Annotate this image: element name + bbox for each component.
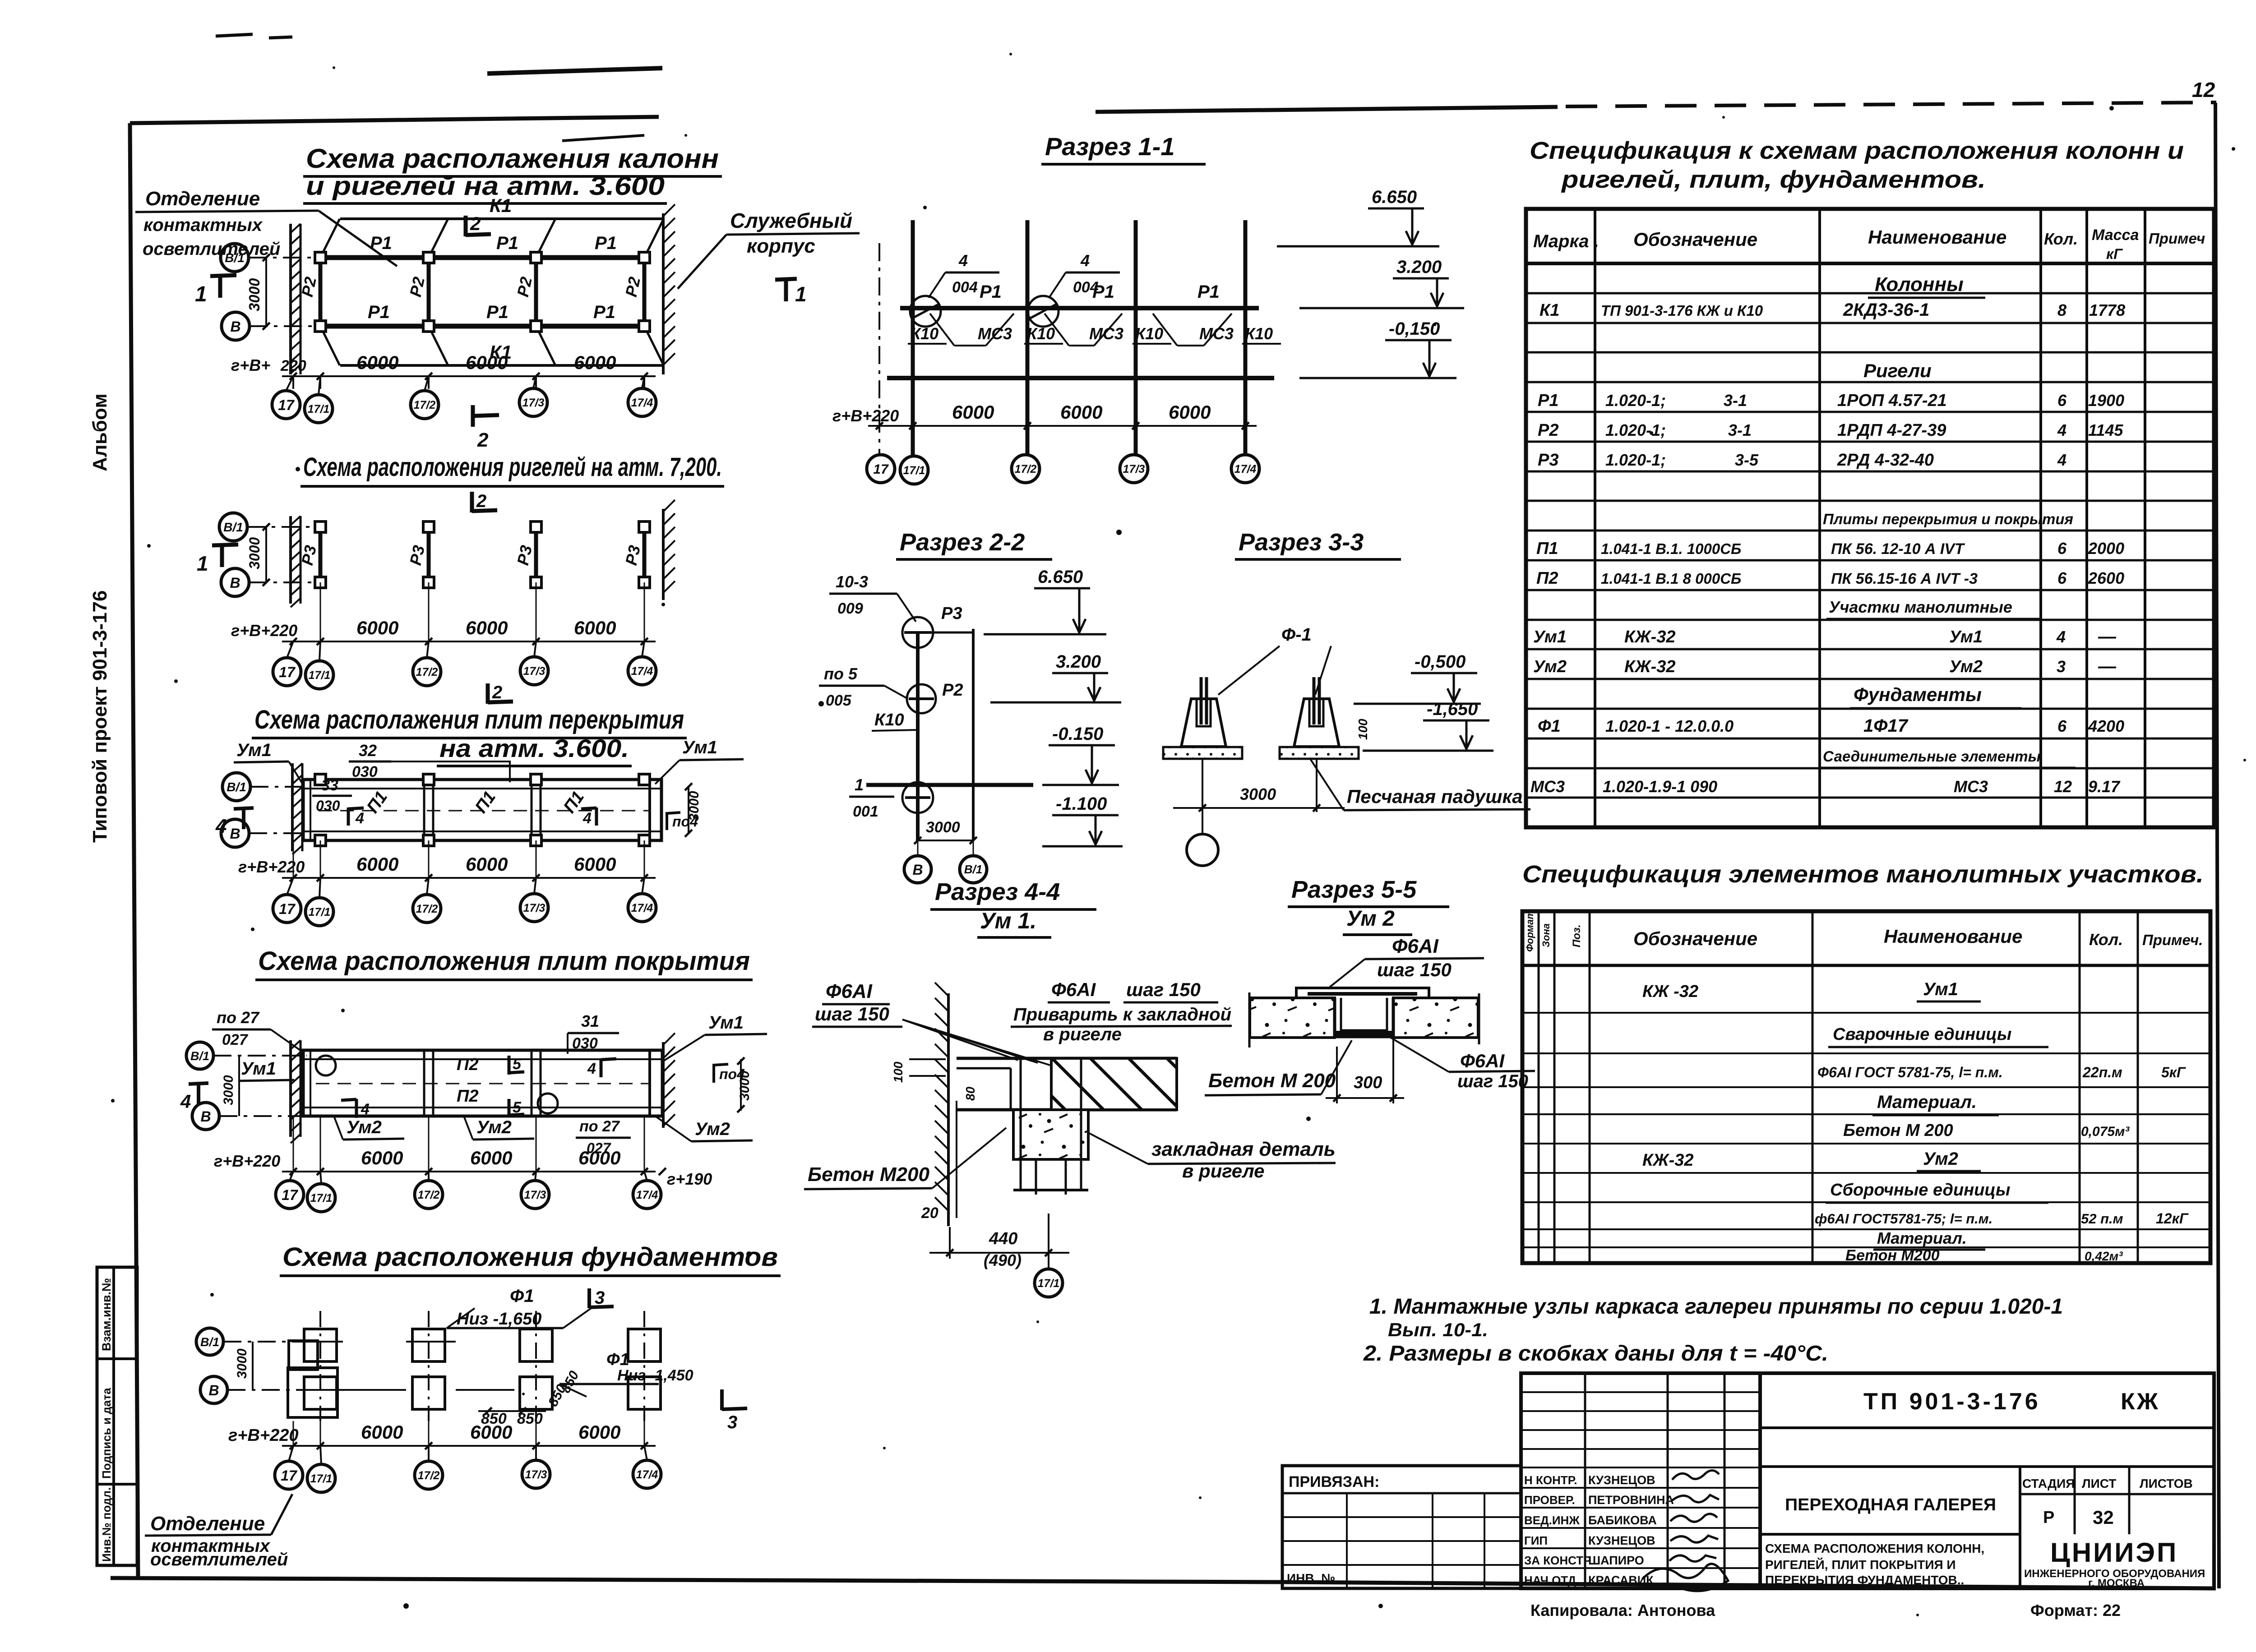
section marks 5 scheme4 xyxy=(508,1056,511,1075)
svg-text:П1: П1 xyxy=(1536,539,1558,558)
svg-text:Формат: 22: Формат: 22 xyxy=(2030,1601,2121,1620)
svg-text:Наименование: Наименование xyxy=(1884,926,2022,947)
svg-text:Приварить к закладной: Приварить к закладной xyxy=(1013,1005,1231,1024)
svg-text:2: 2 xyxy=(492,683,502,702)
svg-text:В: В xyxy=(230,826,240,842)
svg-text:Ф1: Ф1 xyxy=(606,1350,629,1369)
ground line section 2-2 xyxy=(866,783,1033,787)
svg-text:СТАДИЯ: СТАДИЯ xyxy=(2022,1477,2075,1490)
svg-text:6.650: 6.650 xyxy=(1038,567,1083,587)
svg-text:3000: 3000 xyxy=(737,1071,752,1101)
svg-text:17/1: 17/1 xyxy=(309,906,331,918)
svg-text:Ф1: Ф1 xyxy=(510,1286,534,1306)
svg-text:Ум2: Ум2 xyxy=(1923,1149,1958,1169)
svg-text:300: 300 xyxy=(1354,1073,1382,1092)
svg-text:80: 80 xyxy=(963,1086,977,1101)
svg-text:17/3: 17/3 xyxy=(524,1189,546,1201)
svg-text:Примеч: Примеч xyxy=(2149,230,2205,247)
svg-text:ГИП: ГИП xyxy=(1524,1534,1548,1547)
svg-text:004: 004 xyxy=(1073,279,1099,296)
svg-text:6000: 6000 xyxy=(470,1147,512,1168)
svg-text:по 27: по 27 xyxy=(217,1008,260,1027)
svg-text:П2: П2 xyxy=(1536,569,1558,588)
axis bubble В scheme5 xyxy=(200,1376,227,1403)
svg-text:Разрез 5-5: Разрез 5-5 xyxy=(1291,876,1417,903)
svg-text:3000: 3000 xyxy=(246,278,263,311)
svg-text:ЛИСТ: ЛИСТ xyxy=(2082,1477,2116,1490)
svg-text:Марка .: Марка . xyxy=(1533,231,1599,251)
svg-text:9.17: 9.17 xyxy=(2088,777,2121,796)
column squares scheme1 xyxy=(315,252,326,263)
axis 17 dash line section 1-1 xyxy=(878,243,880,456)
svg-text:ШАПИРО: ШАПИРО xyxy=(1588,1554,1644,1567)
svg-text:г+В+: г+В+ xyxy=(231,356,270,374)
svg-text:Разрез 2-2: Разрез 2-2 xyxy=(900,529,1025,556)
svg-text:3000: 3000 xyxy=(246,537,263,569)
svg-text:г+В+220: г+В+220 xyxy=(231,621,297,640)
svg-text:20: 20 xyxy=(921,1204,938,1222)
dimension line scheme2 xyxy=(282,641,656,642)
section marks 4 inside scheme4 xyxy=(600,1058,603,1077)
weld circle P3 section 2-2 xyxy=(902,617,933,648)
title block signatures xyxy=(1642,1470,1728,1591)
svg-text:2000: 2000 xyxy=(2088,539,2124,558)
svg-text:1.020-1;: 1.020-1; xyxy=(1605,421,1666,439)
axis bubbles section 2-2 xyxy=(904,856,931,883)
svg-text:В/1: В/1 xyxy=(225,251,245,265)
svg-text:17/4: 17/4 xyxy=(1234,463,1257,475)
svg-text:4: 4 xyxy=(1080,251,1090,270)
svg-text:Участки манолитные: Участки манолитные xyxy=(1829,598,2012,616)
svg-text:1900: 1900 xyxy=(2088,391,2124,410)
svg-text:В/1: В/1 xyxy=(964,863,982,876)
svg-text:К10: К10 xyxy=(1135,324,1163,343)
axis bubbles bottom scheme5 xyxy=(275,1461,303,1489)
cover plate section 5-5 xyxy=(1296,988,1429,998)
slab band section 5-5 xyxy=(1250,998,1335,1038)
svg-text:6000: 6000 xyxy=(356,352,398,373)
svg-text:Ум1: Ум1 xyxy=(241,1059,276,1079)
svg-text:17: 17 xyxy=(279,664,296,680)
svg-text:1.020-1 - 12.0.0.0: 1.020-1 - 12.0.0.0 xyxy=(1605,717,1734,735)
svg-text:МС3: МС3 xyxy=(1530,777,1565,796)
svg-text:6.650: 6.650 xyxy=(1372,187,1417,207)
svg-text:17: 17 xyxy=(278,397,295,413)
svg-text:6000: 6000 xyxy=(952,401,994,423)
axis bubble В/1 scheme1 xyxy=(221,244,249,272)
svg-text:Материал.: Материал. xyxy=(1877,1229,1967,1247)
svg-text:ЛИСТОВ: ЛИСТОВ xyxy=(2140,1477,2193,1490)
svg-text:Разрез 3-3: Разрез 3-3 xyxy=(1239,529,1364,556)
svg-text:Ум 1.: Ум 1. xyxy=(980,908,1036,933)
dim 3000 section 2-2 xyxy=(918,840,973,841)
beam row В/1 scheme1 (Р1) xyxy=(320,255,644,260)
svg-text:Ф6АI: Ф6АI xyxy=(1392,935,1439,957)
svg-text:12: 12 xyxy=(2054,777,2072,796)
svg-text:32: 32 xyxy=(359,741,377,760)
svg-text:КУЗНЕЦОВ: КУЗНЕЦОВ xyxy=(1588,1534,1655,1547)
svg-text:шаг 150: шаг 150 xyxy=(1126,979,1201,1000)
svg-text:Саединительные элементы: Саединительные элементы xyxy=(1823,748,2041,765)
svg-text:6000: 6000 xyxy=(466,617,508,638)
svg-text:17/3: 17/3 xyxy=(523,902,546,914)
svg-text:2: 2 xyxy=(470,213,481,234)
svg-text:6000: 6000 xyxy=(1060,401,1102,423)
svg-text:г+190: г+190 xyxy=(667,1170,712,1188)
svg-text:009: 009 xyxy=(837,600,863,617)
svg-text:К10: К10 xyxy=(874,711,904,729)
svg-text:КЖ-32: КЖ-32 xyxy=(1642,1151,1694,1170)
svg-text:Схема расположения фундаментов: Схема расположения фундаментов xyxy=(282,1242,778,1272)
svg-text:3: 3 xyxy=(595,1288,605,1308)
svg-text:3-1: 3-1 xyxy=(1728,421,1752,439)
dim 100 section 4-4 xyxy=(909,1058,946,1060)
svg-text:г+В+220: г+В+220 xyxy=(832,406,899,425)
svg-text:КЖ-32: КЖ-32 xyxy=(1624,628,1676,646)
svg-text:33: 33 xyxy=(321,777,338,794)
svg-text:Бетон М200: Бетон М200 xyxy=(808,1163,929,1186)
svg-text:4200: 4200 xyxy=(2088,717,2124,735)
svg-text:В: В xyxy=(230,575,240,591)
svg-text:Поз.: Поз. xyxy=(1571,924,1583,947)
svg-text:Ум2: Ум2 xyxy=(347,1117,382,1137)
dimension line section 1-1 xyxy=(868,425,1257,427)
axis bubble В/1 scheme5 xyxy=(196,1328,223,1355)
svg-text:17/4: 17/4 xyxy=(636,1468,658,1481)
U channel section 5-5 xyxy=(1335,998,1393,1037)
svg-text:1: 1 xyxy=(855,775,864,794)
svg-text:Кол.: Кол. xyxy=(2089,930,2123,949)
svg-text:Ум2: Ум2 xyxy=(1533,657,1567,676)
section mark 2 bottom scheme1 xyxy=(471,405,475,427)
svg-text:Ф6АI: Ф6АI xyxy=(1051,979,1096,1000)
svg-text:ВЕД.ИНЖ: ВЕД.ИНЖ xyxy=(1524,1514,1580,1527)
svg-text:0,075м³: 0,075м³ xyxy=(2081,1124,2130,1139)
svg-text:2. Размеры в скобках даны для: 2. Размеры в скобках даны для t = -40°С. xyxy=(1363,1342,1828,1366)
svg-text:3-5: 3-5 xyxy=(1735,451,1759,469)
svg-text:В/1: В/1 xyxy=(200,1335,219,1349)
girder K1 top outline scheme1 xyxy=(340,217,663,220)
svg-text:корпус: корпус xyxy=(747,235,815,257)
axis bubble В scheme4 xyxy=(192,1103,219,1130)
svg-text:6000: 6000 xyxy=(574,617,616,638)
svg-text:4: 4 xyxy=(2056,628,2066,646)
svg-text:52 п.м: 52 п.м xyxy=(2081,1211,2123,1227)
svg-text:100: 100 xyxy=(891,1061,905,1083)
svg-text:1145: 1145 xyxy=(2088,421,2123,439)
svg-text:-1,650: -1,650 xyxy=(1427,699,1478,719)
svg-text:кГ: кГ xyxy=(2106,246,2123,262)
svg-text:Ум1: Ум1 xyxy=(1923,979,1958,999)
svg-text:Ф6АI: Ф6АI xyxy=(1460,1050,1505,1071)
svg-text:1.041-1 В.1. 1000СБ: 1.041-1 В.1. 1000СБ xyxy=(1601,540,1741,557)
svg-text:6000: 6000 xyxy=(578,1421,620,1443)
dim 3000 right scheme3 xyxy=(688,787,689,833)
svg-text:17/1: 17/1 xyxy=(309,669,331,682)
svg-text:Типовой проект 901-3-176: Типовой проект 901-3-176 xyxy=(89,590,111,843)
axis bubbles bottom scheme2 xyxy=(273,658,301,686)
section marks 4 inside scheme3 xyxy=(347,808,350,826)
svg-text:П2: П2 xyxy=(457,1055,478,1074)
svg-text:ТП 901-3-176: ТП 901-3-176 xyxy=(1863,1389,2041,1415)
svg-text:Р2: Р2 xyxy=(942,681,963,700)
horizontal tie lines scheme5 xyxy=(307,1341,343,1343)
axis bubbles section 1-1 xyxy=(867,455,895,483)
svg-text:Служебный: Служебный xyxy=(730,209,852,232)
svg-text:5: 5 xyxy=(513,1056,522,1073)
column below section 4-4 xyxy=(1035,1159,1037,1195)
svg-text:Р2: Р2 xyxy=(1538,421,1558,440)
svg-text:17/4: 17/4 xyxy=(636,1189,658,1201)
svg-text:Взам.инв.№: Взам.инв.№ xyxy=(100,1278,113,1351)
svg-text:17/1: 17/1 xyxy=(903,464,925,477)
ground line section 1-1 xyxy=(887,376,1274,380)
svg-text:Отделение: Отделение xyxy=(145,188,260,210)
svg-text:Ум2: Ум2 xyxy=(476,1117,512,1137)
svg-text:Ум1: Ум1 xyxy=(236,740,272,760)
axis bubble В scheme3 xyxy=(221,819,249,847)
beams Р2 vertical scheme1 xyxy=(319,258,323,326)
svg-text:17/2: 17/2 xyxy=(414,399,436,411)
svg-text:6000: 6000 xyxy=(1169,401,1211,423)
svg-text:В: В xyxy=(912,862,923,878)
svg-text:Формат: Формат xyxy=(1524,910,1535,952)
svg-text:Ум1: Ум1 xyxy=(1949,628,1983,646)
svg-text:2600: 2600 xyxy=(2088,569,2124,587)
svg-text:В: В xyxy=(208,1382,219,1398)
svg-text:по 27: по 27 xyxy=(579,1118,620,1135)
wall hatch scheme1 xyxy=(289,224,292,374)
svg-text:17/1: 17/1 xyxy=(308,403,330,415)
column squares scheme3 xyxy=(315,774,326,785)
svg-text:Инв.№ подл.: Инв.№ подл. xyxy=(100,1487,113,1562)
svg-text:БАБИКОВА: БАБИКОВА xyxy=(1588,1514,1657,1527)
svg-text:1РДП 4-27-39: 1РДП 4-27-39 xyxy=(1837,421,1946,440)
svg-text:г+В+220: г+В+220 xyxy=(238,858,305,876)
svg-text:Р1: Р1 xyxy=(593,302,615,322)
svg-text:6: 6 xyxy=(2057,569,2067,587)
columns section 1-1 xyxy=(911,220,915,456)
svg-text:Разрез 1-1: Разрез 1-1 xyxy=(1045,132,1175,161)
svg-text:1. Мантажные узлы каркаса гале: 1. Мантажные узлы каркаса галереи принят… xyxy=(1369,1295,2063,1319)
svg-text:440: 440 xyxy=(989,1229,1017,1248)
svg-text:Подпись и дата: Подпись и дата xyxy=(100,1388,113,1479)
svg-text:ПЕТРОВНИНА: ПЕТРОВНИНА xyxy=(1588,1493,1674,1507)
svg-text:17/3: 17/3 xyxy=(1123,463,1145,475)
svg-text:Р: Р xyxy=(2043,1508,2054,1527)
svg-text:МС3: МС3 xyxy=(1199,324,1234,343)
svg-text:Песчаная падушка: Песчаная падушка xyxy=(1347,786,1523,807)
dim 3000 scheme5 xyxy=(252,1342,254,1390)
svg-text:17/3: 17/3 xyxy=(523,665,546,678)
title block left part ПРИВЯЗАН xyxy=(1282,1466,1521,1588)
columns section 2-2 xyxy=(916,632,920,840)
svg-text:Кол.: Кол. xyxy=(2044,230,2078,248)
svg-text:контактных: контактных xyxy=(143,215,263,235)
svg-text:17: 17 xyxy=(873,462,889,477)
svg-text:Ф6АI ГОСТ 5781-75, l= п.м.: Ф6АI ГОСТ 5781-75, l= п.м. xyxy=(1817,1064,2003,1080)
svg-text:Ум2: Ум2 xyxy=(1949,657,1983,676)
dim 3000 section 3-3 xyxy=(1202,759,1203,812)
svg-text:Ум1: Ум1 xyxy=(682,738,717,757)
left stamp column box xyxy=(97,1267,137,1565)
svg-text:и ригелей на атм. 3.600: и ригелей на атм. 3.600 xyxy=(306,171,665,201)
dim 3000 between axes scheme1 xyxy=(265,258,267,326)
svg-text:Р1: Р1 xyxy=(486,302,509,322)
svg-text:Масса: Масса xyxy=(2092,226,2139,244)
svg-text:17/1: 17/1 xyxy=(310,1472,333,1485)
section mark Т1 right of scheme1 xyxy=(784,278,788,301)
wall hatch scheme4 xyxy=(289,1040,292,1137)
svg-text:17/1: 17/1 xyxy=(1038,1277,1060,1290)
svg-text:6000: 6000 xyxy=(574,352,616,373)
svg-text:Р1: Р1 xyxy=(1197,282,1220,302)
dim 440 (490) section 4-4 xyxy=(949,1227,951,1259)
svg-text:РИГЕЛЕЙ, ПЛИТ ПОКРЫТИЯ И: РИГЕЛЕЙ, ПЛИТ ПОКРЫТИЯ И xyxy=(1765,1557,1956,1572)
right wall scheme2 xyxy=(662,509,665,600)
axis bubble В/1 scheme3 xyxy=(222,773,250,801)
svg-text:-0,150: -0,150 xyxy=(1389,319,1440,339)
axis bubble 17/1 section 4-4 xyxy=(1048,1259,1049,1269)
section mark 2 bottom scheme2 xyxy=(486,683,490,704)
sand pads section 3-3 xyxy=(1163,747,1242,759)
svg-text:Р1: Р1 xyxy=(368,302,390,322)
dim 3000 right scheme4 xyxy=(740,1059,742,1111)
svg-text:1.020-1;: 1.020-1; xyxy=(1605,451,1666,469)
foundation squares top row scheme5 xyxy=(304,1329,337,1361)
svg-text:ПРОВЕР.: ПРОВЕР. xyxy=(1524,1493,1575,1507)
svg-text:1Ф17: 1Ф17 xyxy=(1863,716,1909,736)
svg-text:ЗА КОНСТР: ЗА КОНСТР xyxy=(1524,1554,1591,1567)
svg-text:Ф6АI: Ф6АI xyxy=(826,980,873,1002)
svg-text:004: 004 xyxy=(952,279,978,296)
svg-text:3000: 3000 xyxy=(926,819,960,836)
svg-text:Р1: Р1 xyxy=(595,233,617,253)
svg-text:Материал.: Материал. xyxy=(1877,1092,1977,1112)
bottom circle section 3-3 xyxy=(1202,812,1203,834)
svg-text:НАЧ.ОТД.: НАЧ.ОТД. xyxy=(1524,1574,1579,1587)
svg-text:Схема располажения калонн: Схема располажения калонн xyxy=(306,143,719,174)
stadia list listov xyxy=(2074,1467,2076,1534)
svg-text:Н КОНТР.: Н КОНТР. xyxy=(1524,1473,1577,1487)
svg-text:Сварочные единицы: Сварочные единицы xyxy=(1833,1025,2011,1044)
svg-text:КЖ: КЖ xyxy=(2121,1389,2160,1415)
svg-text:Бетон М 200: Бетон М 200 xyxy=(1208,1070,1336,1092)
svg-text:001: 001 xyxy=(853,803,878,820)
right wall scheme4 xyxy=(662,1042,665,1128)
svg-text:Р1: Р1 xyxy=(496,233,518,253)
svg-text:В: В xyxy=(200,1108,211,1125)
svg-text:МС3: МС3 xyxy=(1954,777,1988,796)
title block right stamp xyxy=(1760,1373,2214,1588)
svg-text:Спецификация элементов манолит: Спецификация элементов манолитных участк… xyxy=(1522,861,2204,888)
svg-text:1778: 1778 xyxy=(2089,301,2125,319)
svg-text:3000: 3000 xyxy=(221,1075,236,1105)
svg-text:Низ -1,650: Низ -1,650 xyxy=(457,1310,541,1329)
svg-text:17/2: 17/2 xyxy=(1015,463,1037,475)
svg-text:6000: 6000 xyxy=(466,352,508,373)
svg-text:17/1: 17/1 xyxy=(310,1192,333,1204)
svg-text:СХЕМА РАСПОЛОЖЕНИЯ КОЛОНН,: СХЕМА РАСПОЛОЖЕНИЯ КОЛОНН, xyxy=(1765,1541,1984,1555)
svg-text:17/4: 17/4 xyxy=(631,902,653,914)
svg-text:31: 31 xyxy=(581,1012,599,1030)
svg-text:шаг 150: шаг 150 xyxy=(1377,959,1452,980)
svg-text:ПРИВЯЗАН:: ПРИВЯЗАН: xyxy=(1289,1473,1379,1490)
svg-text:4: 4 xyxy=(587,1060,596,1077)
svg-text:4: 4 xyxy=(958,251,968,270)
axis bubble В/1 scheme2 xyxy=(219,513,247,541)
axis bubble В scheme2 xyxy=(221,568,249,596)
svg-text:6000: 6000 xyxy=(470,1421,512,1443)
dimension line scheme3 xyxy=(282,877,656,879)
svg-text:ПЕРЕКРЫТИЯ ФУНДАМЕНТОВ..: ПЕРЕКРЫТИЯ ФУНДАМЕНТОВ.. xyxy=(1765,1573,1964,1587)
svg-text:Бетон М 200: Бетон М 200 xyxy=(1843,1121,1953,1140)
svg-text:осветлителей: осветлителей xyxy=(143,239,280,259)
svg-text:100: 100 xyxy=(1356,719,1370,740)
svg-text:К10: К10 xyxy=(1027,324,1055,343)
weld circle P2 section 2-2 xyxy=(907,684,936,713)
svg-text:Ум1: Ум1 xyxy=(1533,628,1567,646)
slab band scheme4 xyxy=(303,1050,662,1116)
svg-text:4: 4 xyxy=(180,1091,191,1112)
svg-text:шаг 150: шаг 150 xyxy=(815,1003,889,1024)
svg-text:ПК 56.15-16 А IVТ -3: ПК 56.15-16 А IVТ -3 xyxy=(1831,570,1978,587)
svg-text:6: 6 xyxy=(2057,539,2067,558)
section mark 2 top scheme1 xyxy=(464,216,468,236)
svg-text:К10: К10 xyxy=(1245,324,1273,343)
svg-text:К10: К10 xyxy=(911,324,938,343)
section mark 3 bottom scheme5 xyxy=(720,1389,724,1410)
svg-text:-0,500: -0,500 xyxy=(1415,652,1465,672)
svg-text:5кГ: 5кГ xyxy=(2161,1064,2186,1080)
svg-text:3-1: 3-1 xyxy=(1724,391,1747,410)
svg-text:Ум1: Ум1 xyxy=(708,1013,744,1033)
svg-text:3.200: 3.200 xyxy=(1396,257,1442,277)
svg-text:Обозначение: Обозначение xyxy=(1633,928,1757,949)
axis bubbles bottom scheme3 xyxy=(273,895,301,923)
svg-text:005: 005 xyxy=(826,692,852,709)
svg-text:2: 2 xyxy=(476,491,486,511)
svg-text:Бетон М200: Бетон М200 xyxy=(1845,1247,1940,1264)
svg-text:ригелей, плит, фундаментов.: ригелей, плит, фундаментов. xyxy=(1561,166,1986,193)
svg-text:Ум2: Ум2 xyxy=(695,1119,730,1139)
svg-text:Альбом: Альбом xyxy=(89,393,111,471)
svg-text:17: 17 xyxy=(279,901,296,917)
section mark 1 left scheme1 xyxy=(218,274,222,298)
foundation squares bottom row scheme5 xyxy=(304,1377,337,1409)
svg-text:КЖ -32: КЖ -32 xyxy=(1642,982,1698,1001)
svg-text:В: В xyxy=(230,318,240,335)
svg-text:6000: 6000 xyxy=(578,1147,620,1168)
svg-text:Р1: Р1 xyxy=(370,233,392,253)
svg-text:1.041-1 В.1 8 000СБ: 1.041-1 В.1 8 000СБ xyxy=(1601,570,1741,587)
svg-text:3000: 3000 xyxy=(1240,785,1276,803)
svg-text:6000: 6000 xyxy=(361,1147,403,1168)
svg-text:Схема расположения плит покры: Схема расположения плит покрытия xyxy=(258,946,750,976)
svg-text:1: 1 xyxy=(795,282,807,306)
dimension line scheme5 xyxy=(282,1445,656,1447)
svg-text:Сборочные единицы: Сборочные единицы xyxy=(1830,1181,2010,1200)
svg-text:027: 027 xyxy=(222,1031,249,1048)
svg-text:Схема располажения плит перекр: Схема располажения плит перекрытия xyxy=(254,705,684,734)
svg-text:ПК 56. 12-10 А IVТ: ПК 56. 12-10 А IVТ xyxy=(1831,540,1965,558)
spec table grid xyxy=(1526,209,2214,827)
svg-text:осветлителей: осветлителей xyxy=(150,1550,288,1569)
svg-text:030: 030 xyxy=(316,798,340,814)
svg-text:3.200: 3.200 xyxy=(1056,652,1101,672)
svg-text:3: 3 xyxy=(2057,657,2066,676)
dimension line scheme4 xyxy=(282,1171,656,1172)
